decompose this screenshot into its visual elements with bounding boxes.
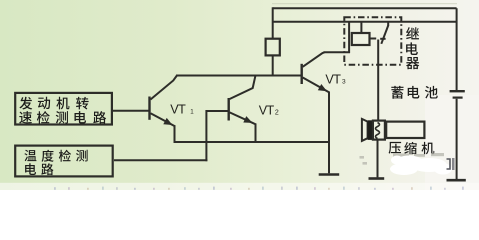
svg-text:VT: VT xyxy=(325,72,341,86)
svg-text:VT: VT xyxy=(259,103,275,117)
svg-text:1: 1 xyxy=(190,109,194,116)
svg-text:2: 2 xyxy=(275,110,279,117)
svg-text:VT: VT xyxy=(170,102,186,116)
svg-text:3: 3 xyxy=(342,79,346,86)
